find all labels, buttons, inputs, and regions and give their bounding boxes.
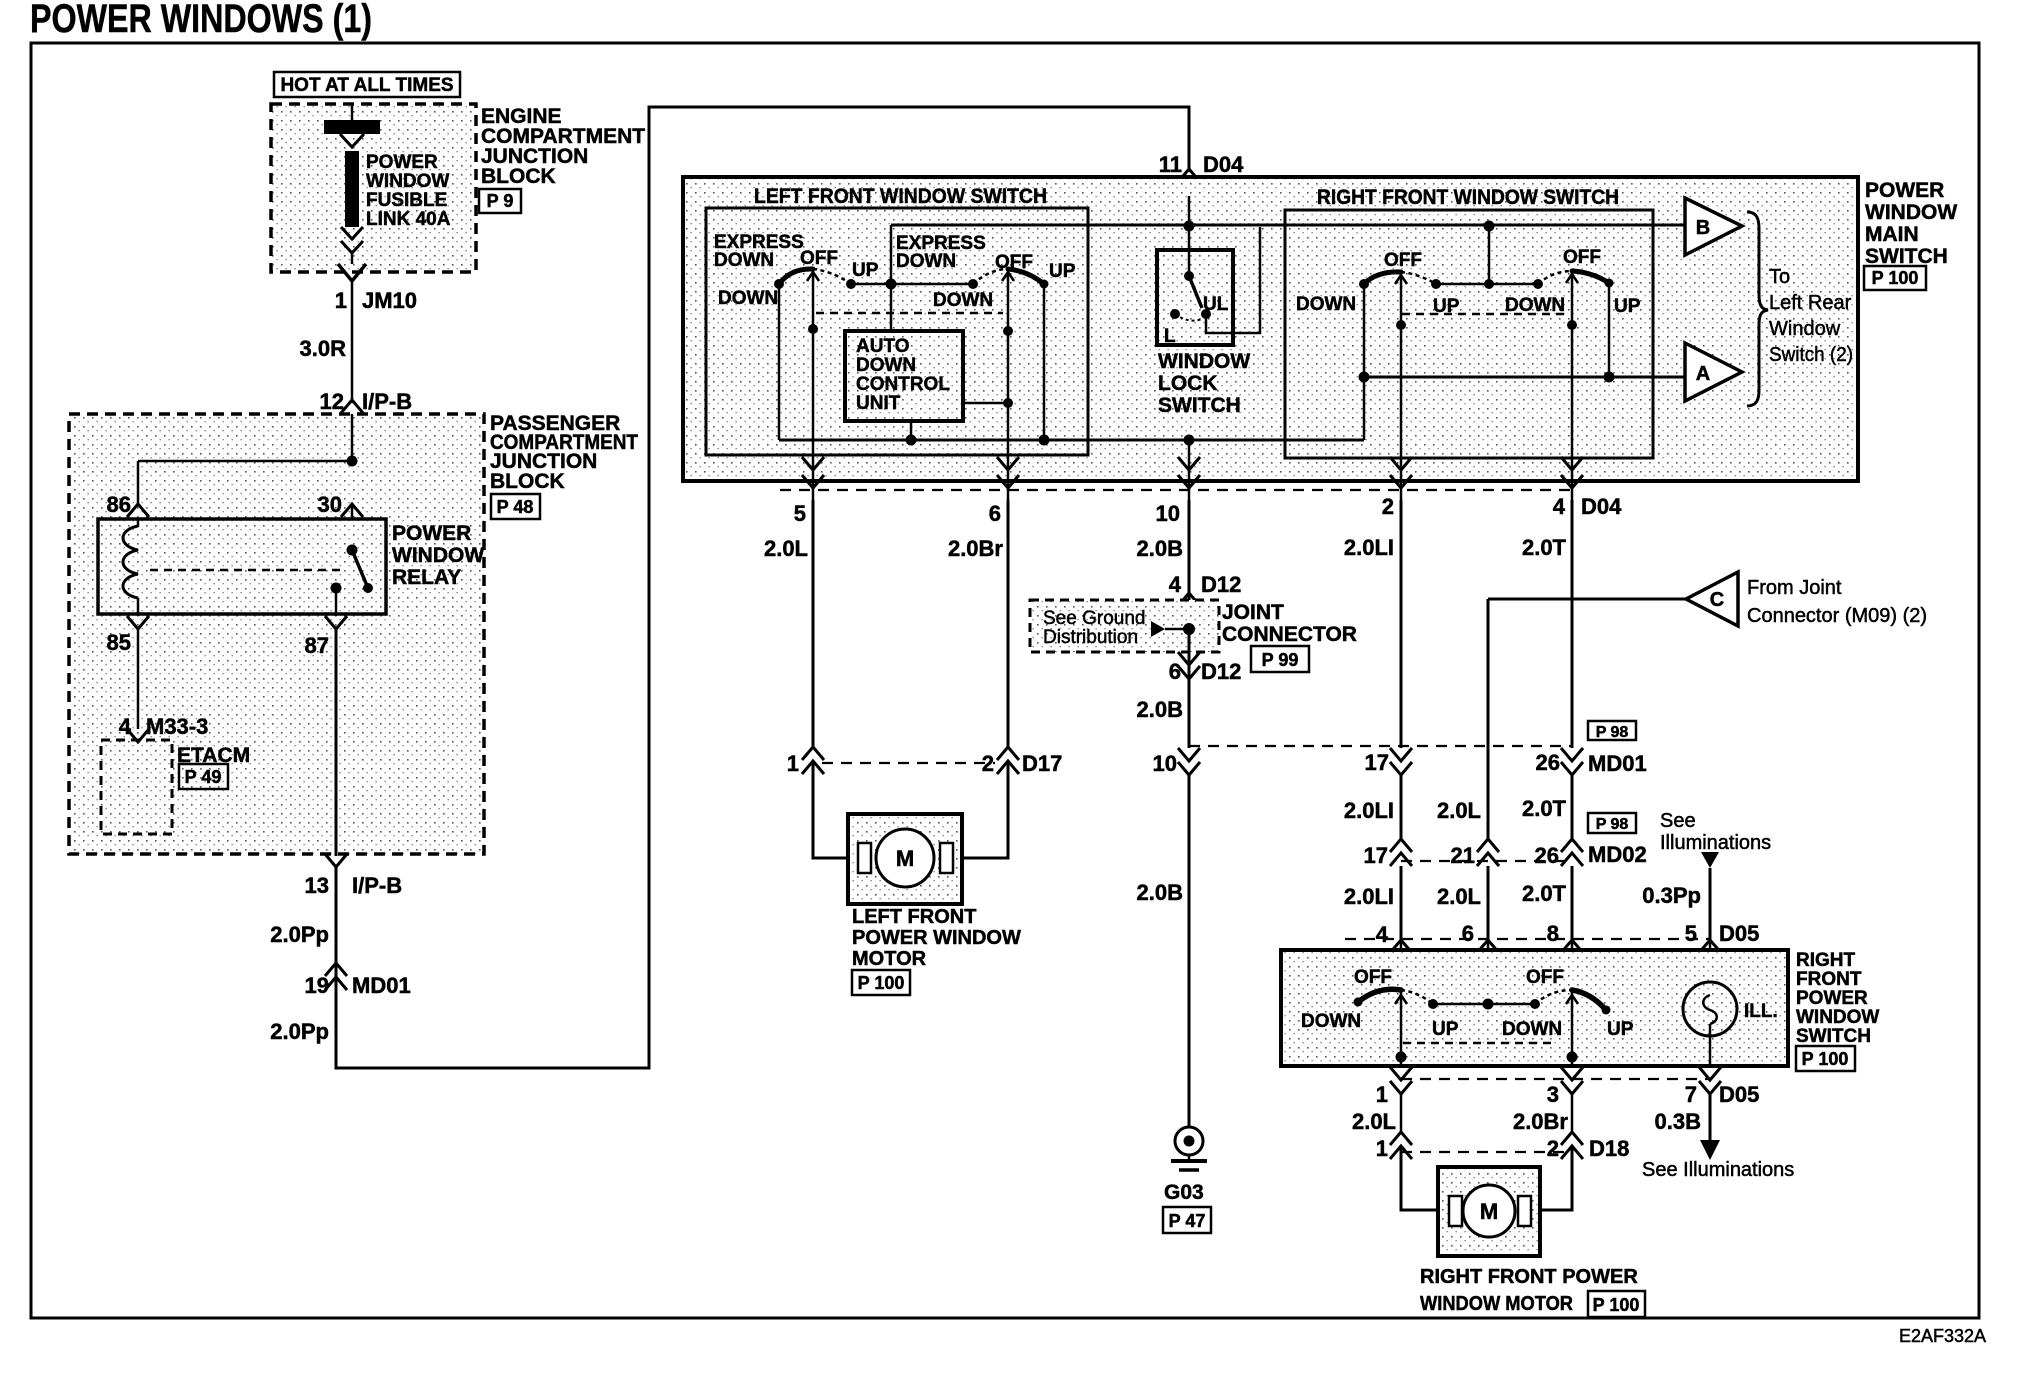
svg-text:2.0B: 2.0B bbox=[1137, 880, 1183, 905]
svg-text:JOINT: JOINT bbox=[1222, 601, 1284, 624]
svg-text:WINDOW: WINDOW bbox=[366, 171, 449, 192]
svg-text:10: 10 bbox=[1156, 501, 1180, 526]
svg-text:POWER WINDOW: POWER WINDOW bbox=[852, 927, 1021, 949]
svg-text:2.0Br: 2.0Br bbox=[948, 536, 1003, 561]
svg-text:LINK 40A: LINK 40A bbox=[366, 209, 451, 230]
svg-text:MD01: MD01 bbox=[1588, 751, 1647, 776]
svg-text:Connector (M09) (2): Connector (M09) (2) bbox=[1747, 605, 1927, 627]
svg-text:I/P-B: I/P-B bbox=[362, 389, 412, 414]
svg-text:MD02: MD02 bbox=[1588, 842, 1647, 867]
svg-text:A: A bbox=[1696, 363, 1710, 385]
svg-text:See Ground: See Ground bbox=[1043, 608, 1145, 629]
svg-text:MD01: MD01 bbox=[352, 973, 411, 998]
svg-text:D12: D12 bbox=[1201, 659, 1241, 684]
svg-text:10: 10 bbox=[1153, 751, 1177, 776]
svg-text:L: L bbox=[1164, 326, 1176, 347]
svg-text:WINDOW: WINDOW bbox=[1158, 350, 1250, 373]
svg-text:M: M bbox=[1480, 1199, 1498, 1224]
svg-text:I/P-B: I/P-B bbox=[352, 873, 402, 898]
svg-text:P 100: P 100 bbox=[1802, 1049, 1849, 1069]
svg-text:UP: UP bbox=[1614, 296, 1641, 317]
svg-text:MAIN: MAIN bbox=[1865, 223, 1919, 246]
svg-text:G03: G03 bbox=[1164, 1181, 1204, 1204]
svg-text:UP: UP bbox=[852, 260, 879, 281]
svg-text:4: 4 bbox=[1169, 572, 1182, 597]
svg-text:RELAY: RELAY bbox=[392, 566, 461, 589]
svg-text:8: 8 bbox=[1547, 921, 1559, 946]
svg-text:4: 4 bbox=[119, 714, 132, 739]
svg-text:4: 4 bbox=[1376, 922, 1389, 947]
svg-text:2.0Pp: 2.0Pp bbox=[270, 922, 329, 947]
svg-text:OFF: OFF bbox=[1563, 247, 1601, 268]
svg-text:1: 1 bbox=[335, 288, 347, 313]
svg-text:From Joint: From Joint bbox=[1747, 577, 1842, 599]
svg-text:DOWN: DOWN bbox=[1301, 1011, 1361, 1032]
svg-text:E2AF332A: E2AF332A bbox=[1899, 1326, 1986, 1346]
svg-text:BLOCK: BLOCK bbox=[481, 165, 556, 188]
svg-text:5: 5 bbox=[794, 501, 806, 526]
svg-text:HOT AT ALL TIMES: HOT AT ALL TIMES bbox=[280, 75, 453, 96]
svg-text:2.0T: 2.0T bbox=[1522, 881, 1567, 906]
svg-text:P 100: P 100 bbox=[1872, 268, 1919, 288]
svg-text:86: 86 bbox=[107, 492, 131, 517]
svg-text:Left Rear: Left Rear bbox=[1769, 292, 1852, 314]
svg-text:2.0T: 2.0T bbox=[1522, 796, 1567, 821]
svg-text:30: 30 bbox=[318, 492, 342, 517]
svg-text:DOWN: DOWN bbox=[718, 288, 778, 309]
svg-text:SWITCH: SWITCH bbox=[1865, 245, 1948, 268]
svg-text:DOWN: DOWN bbox=[856, 355, 916, 376]
svg-text:POWER: POWER bbox=[1865, 179, 1944, 202]
svg-text:5: 5 bbox=[1685, 921, 1697, 946]
svg-text:POWER: POWER bbox=[392, 522, 471, 545]
svg-text:1: 1 bbox=[787, 751, 799, 776]
svg-text:RIGHT: RIGHT bbox=[1796, 950, 1856, 971]
svg-text:CONNECTOR: CONNECTOR bbox=[1222, 623, 1357, 646]
svg-text:26: 26 bbox=[1536, 750, 1560, 775]
svg-text:UL: UL bbox=[1203, 294, 1229, 315]
svg-text:SWITCH: SWITCH bbox=[1796, 1026, 1871, 1047]
svg-text:2.0Pp: 2.0Pp bbox=[270, 1019, 329, 1044]
svg-text:2.0T: 2.0T bbox=[1522, 535, 1567, 560]
svg-text:POWER WINDOWS (1): POWER WINDOWS (1) bbox=[30, 0, 372, 41]
svg-text:M33-3: M33-3 bbox=[146, 714, 208, 739]
svg-text:OFF: OFF bbox=[1384, 250, 1422, 271]
svg-text:D04: D04 bbox=[1203, 152, 1244, 177]
svg-text:7: 7 bbox=[1685, 1082, 1697, 1107]
svg-text:LEFT FRONT: LEFT FRONT bbox=[852, 906, 976, 928]
svg-text:3: 3 bbox=[1547, 1082, 1559, 1107]
svg-text:2.0Br: 2.0Br bbox=[1513, 1109, 1568, 1134]
svg-text:Switch (2): Switch (2) bbox=[1769, 344, 1853, 366]
svg-text:RIGHT FRONT WINDOW SWITCH: RIGHT FRONT WINDOW SWITCH bbox=[1317, 186, 1619, 209]
svg-text:11: 11 bbox=[1159, 152, 1182, 177]
svg-text:M: M bbox=[896, 846, 914, 871]
svg-text:To: To bbox=[1769, 266, 1790, 288]
svg-text:Distribution: Distribution bbox=[1043, 627, 1138, 648]
svg-text:6: 6 bbox=[989, 501, 1001, 526]
svg-text:RIGHT FRONT POWER: RIGHT FRONT POWER bbox=[1420, 1266, 1638, 1288]
svg-text:87: 87 bbox=[305, 633, 329, 658]
svg-text:P 100: P 100 bbox=[858, 973, 905, 993]
svg-text:WINDOW MOTOR: WINDOW MOTOR bbox=[1420, 1293, 1574, 1315]
svg-text:D05: D05 bbox=[1719, 921, 1759, 946]
svg-text:21: 21 bbox=[1451, 843, 1475, 868]
svg-text:DOWN: DOWN bbox=[1502, 1019, 1562, 1040]
svg-text:POWER: POWER bbox=[366, 152, 438, 173]
svg-text:2.0L: 2.0L bbox=[1437, 884, 1481, 909]
svg-text:B: B bbox=[1696, 217, 1710, 239]
svg-text:0.3Pp: 0.3Pp bbox=[1642, 883, 1701, 908]
svg-text:17: 17 bbox=[1365, 750, 1389, 775]
svg-text:P 98: P 98 bbox=[1596, 724, 1629, 741]
svg-text:OFF: OFF bbox=[800, 248, 838, 269]
svg-text:P 99: P 99 bbox=[1262, 650, 1299, 670]
svg-text:2.0L: 2.0L bbox=[1437, 798, 1481, 823]
svg-text:17: 17 bbox=[1364, 843, 1388, 868]
svg-text:D18: D18 bbox=[1589, 1136, 1629, 1161]
svg-text:P 47: P 47 bbox=[1169, 1211, 1206, 1231]
svg-text:AUTO: AUTO bbox=[856, 336, 909, 357]
svg-text:3.0R: 3.0R bbox=[300, 336, 347, 361]
svg-text:FUSIBLE: FUSIBLE bbox=[366, 190, 447, 211]
svg-text:P 9: P 9 bbox=[487, 191, 514, 211]
svg-text:Window: Window bbox=[1769, 318, 1841, 340]
svg-text:JM10: JM10 bbox=[362, 288, 417, 313]
svg-text:D12: D12 bbox=[1201, 572, 1241, 597]
svg-text:P 48: P 48 bbox=[497, 497, 534, 517]
svg-text:1: 1 bbox=[1376, 1082, 1388, 1107]
svg-text:Illuminations: Illuminations bbox=[1660, 832, 1771, 854]
svg-text:LEFT FRONT WINDOW SWITCH: LEFT FRONT WINDOW SWITCH bbox=[754, 185, 1047, 208]
svg-text:2.0B: 2.0B bbox=[1137, 697, 1183, 722]
svg-text:LOCK: LOCK bbox=[1158, 372, 1218, 395]
svg-text:OFF: OFF bbox=[1526, 967, 1564, 988]
svg-text:6: 6 bbox=[1462, 921, 1474, 946]
svg-text:2.0L: 2.0L bbox=[1352, 1109, 1396, 1134]
svg-text:P 98: P 98 bbox=[1596, 816, 1629, 833]
svg-text:6: 6 bbox=[1169, 659, 1181, 684]
svg-text:See Illuminations: See Illuminations bbox=[1642, 1159, 1794, 1181]
svg-text:2.0LI: 2.0LI bbox=[1344, 884, 1394, 909]
svg-text:13: 13 bbox=[305, 873, 329, 898]
svg-text:MOTOR: MOTOR bbox=[852, 948, 927, 970]
svg-text:OFF: OFF bbox=[1354, 967, 1392, 988]
svg-text:D04: D04 bbox=[1581, 494, 1622, 519]
svg-text:UP: UP bbox=[1432, 1019, 1459, 1040]
svg-text:12: 12 bbox=[320, 389, 344, 414]
svg-text:DOWN: DOWN bbox=[896, 251, 956, 272]
svg-text:See: See bbox=[1660, 810, 1696, 832]
svg-text:P 100: P 100 bbox=[1593, 1295, 1640, 1315]
svg-text:D17: D17 bbox=[1022, 751, 1062, 776]
svg-text:4: 4 bbox=[1553, 494, 1566, 519]
svg-text:2.0B: 2.0B bbox=[1137, 536, 1183, 561]
svg-text:DOWN: DOWN bbox=[714, 250, 774, 271]
svg-text:CONTROL: CONTROL bbox=[856, 374, 950, 395]
svg-text:UNIT: UNIT bbox=[856, 393, 901, 414]
svg-text:BLOCK: BLOCK bbox=[490, 470, 565, 493]
svg-text:WINDOW: WINDOW bbox=[1796, 1007, 1879, 1028]
svg-text:WINDOW: WINDOW bbox=[1865, 201, 1957, 224]
svg-text:FRONT: FRONT bbox=[1796, 969, 1862, 990]
svg-text:ILL.: ILL. bbox=[1744, 1001, 1778, 1022]
svg-text:C: C bbox=[1710, 589, 1724, 611]
svg-text:SWITCH: SWITCH bbox=[1158, 394, 1241, 417]
svg-text:DOWN: DOWN bbox=[1296, 294, 1356, 315]
svg-text:2.0L: 2.0L bbox=[764, 536, 808, 561]
svg-text:WINDOW: WINDOW bbox=[392, 544, 484, 567]
svg-text:2.0LI: 2.0LI bbox=[1344, 798, 1394, 823]
svg-text:2: 2 bbox=[1382, 494, 1394, 519]
svg-text:2: 2 bbox=[1547, 1136, 1559, 1161]
svg-text:POWER: POWER bbox=[1796, 988, 1868, 1009]
svg-text:0.3B: 0.3B bbox=[1655, 1109, 1701, 1134]
svg-text:UP: UP bbox=[1607, 1019, 1634, 1040]
svg-text:1: 1 bbox=[1376, 1136, 1388, 1161]
svg-text:P 49: P 49 bbox=[185, 767, 222, 787]
svg-text:85: 85 bbox=[107, 630, 131, 655]
svg-text:19: 19 bbox=[305, 973, 329, 998]
svg-text:26: 26 bbox=[1535, 843, 1559, 868]
svg-text:2.0LI: 2.0LI bbox=[1344, 535, 1394, 560]
svg-text:DOWN: DOWN bbox=[933, 290, 993, 311]
svg-text:D05: D05 bbox=[1719, 1082, 1759, 1107]
svg-text:UP: UP bbox=[1049, 261, 1076, 282]
